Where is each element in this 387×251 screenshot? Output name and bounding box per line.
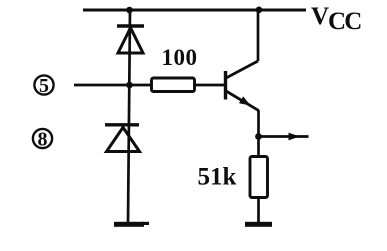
ground (under R2) [245, 222, 272, 227]
diode D2 (lower, cathode up) [105, 125, 140, 152]
wire: collector to rail [257, 10, 260, 61]
emitter arrow of Q1 [239, 96, 251, 105]
pin label 5 (circled) [34, 75, 53, 97]
transistor Q1 (NPN) [226, 61, 259, 111]
wire: emitter down to output node [257, 110, 260, 157]
wire: output lead to the right [259, 135, 309, 138]
diode D1 (upper, cathode up) [117, 26, 144, 53]
svg-text:5: 5 [39, 75, 49, 97]
node: junction of rail and collector [256, 7, 263, 14]
svg-text:CC: CC [328, 8, 361, 35]
svg-text:100: 100 [162, 45, 198, 70]
pin label 8 (circled) [33, 129, 52, 151]
svg-text:51k: 51k [198, 163, 237, 190]
node: junction of rail and diode branch [126, 7, 133, 14]
arrow: output direction [289, 133, 300, 141]
node: output junction [255, 133, 262, 140]
wire: resistor R2 to ground [257, 198, 260, 224]
ground (left branch) [114, 222, 144, 227]
wire: top VCC rail [83, 9, 306, 12]
resistor R2 body [250, 157, 268, 198]
wire: from pin 5 to resistor [74, 84, 152, 87]
node: junction of pin-5 wire and diode branch [126, 82, 133, 89]
wire: resistor to transistor base [195, 84, 225, 87]
svg-text:8: 8 [38, 129, 48, 151]
svg-text:V: V [311, 3, 329, 30]
wire: left vertical branch from rail to ground [128, 10, 130, 222]
net label VCC [311, 3, 361, 35]
resistor R1 body [152, 78, 195, 92]
